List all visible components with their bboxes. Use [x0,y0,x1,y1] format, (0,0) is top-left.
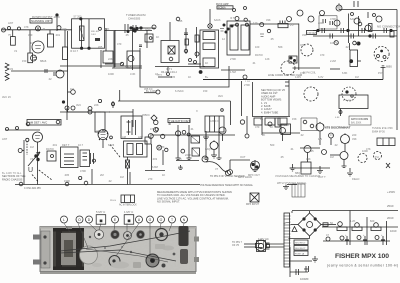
svg-text:L: L [63,218,65,222]
svg-text:500: 500 [270,143,275,147]
svg-text:6BA6: 6BA6 [40,59,47,63]
svg-text:MILLER 1461 A: MILLER 1461 A [161,71,178,74]
svg-text:AM DET / AVC: AM DET / AVC [29,121,47,125]
svg-text:IF T2: IF T2 [230,16,237,20]
svg-text:.01: .01 [252,61,256,65]
svg-text:22K: 22K [108,57,113,61]
svg-text:AVC: AVC [76,103,81,107]
svg-text:.003: .003 [152,157,158,161]
svg-text:V1: V1 [14,49,18,53]
svg-text:RADIO CHASSIS: RADIO CHASSIS [2,177,23,181]
svg-text:1K: 1K [205,61,208,65]
svg-text:56 PH COIL: 56 PH COIL [303,72,317,75]
svg-text:.02: .02 [183,49,187,53]
svg-text:.05: .05 [125,33,129,37]
svg-text:1.2K: 1.2K [350,219,356,223]
svg-text:■: ■ [127,219,130,225]
svg-text:O: O [78,218,81,222]
svg-text:RATIO DISCRIM: RATIO DISCRIM [351,118,368,121]
svg-text:V4: V4 [96,129,100,133]
svg-text:6BE6: 6BE6 [386,66,393,69]
svg-text:33K: 33K [266,18,271,22]
svg-text:SCANNING UNIT: SCANNING UNIT [31,20,51,23]
svg-text:FIELD: FIELD [352,177,359,181]
svg-text:V6: V6 [355,41,359,45]
svg-text:+150V: +150V [387,190,395,194]
svg-text:120: 120 [253,21,258,25]
svg-text:.005: .005 [170,75,176,79]
svg-text:POT: POT [378,71,384,75]
svg-text:1M: 1M [120,175,124,179]
svg-text:455: 455 [178,19,183,23]
svg-text:15K: 15K [292,117,297,121]
svg-text:56K: 56K [278,45,283,49]
svg-text:470: 470 [255,125,260,129]
svg-text:.01: .01 [290,147,294,151]
svg-text:6.8M: 6.8M [152,165,158,169]
svg-text:1M: 1M [330,155,334,159]
svg-text:.05: .05 [310,149,314,153]
svg-text:6CB6A: 6CB6A [218,7,226,10]
svg-text:100MF: 100MF [300,277,309,281]
svg-text:5 MY C: 5 MY C [96,210,105,214]
svg-text:33K: 33K [178,165,183,169]
svg-text:6.8K: 6.8K [342,71,348,75]
svg-text:1K: 1K [162,173,165,177]
svg-text:EM84 6FG6: EM84 6FG6 [372,130,386,133]
svg-text:150K: 150K [64,179,70,183]
svg-text:.02: .02 [334,143,338,147]
svg-text:455KC: 455KC [142,113,150,117]
svg-text:PH: PH [375,155,379,159]
svg-text:OSC: OSC [145,27,151,31]
svg-text:NO CONNECTION: NO CONNECTION [377,25,400,29]
svg-text:IF 10.7: IF 10.7 [70,49,79,53]
svg-text:820: 820 [370,219,375,223]
svg-text:.001: .001 [55,33,61,37]
svg-text:6AU6: 6AU6 [214,18,221,22]
svg-text:ANT: ANT [138,135,144,139]
svg-text:220K: 220K [318,21,324,25]
svg-text:20UF: 20UF [387,216,394,220]
svg-text:47K: 47K [300,71,305,75]
svg-text:FISHER MPX 100: FISHER MPX 100 [335,253,389,260]
svg-text:MPX INPUT: MPX INPUT [246,203,260,206]
svg-text:270K: 270K [244,83,250,87]
svg-text:270K: 270K [230,57,236,61]
svg-text:V3: V3 [30,157,34,161]
svg-text:33K: 33K [306,157,311,161]
svg-text:6AL5: 6AL5 [350,17,357,21]
svg-text:6T8 DISCRIMINAT: 6T8 DISCRIMINAT [325,126,351,130]
svg-text:470K: 470K [80,169,86,173]
svg-text:57 200: 57 200 [74,15,82,19]
svg-text:1 MY C: 1 MY C [124,210,133,214]
svg-text:150: 150 [203,89,208,93]
svg-text:2.2M: 2.2M [330,59,336,63]
svg-text:3.3K: 3.3K [130,72,136,76]
svg-text:2K: 2K [262,133,265,137]
svg-text:TO PIN 3 OF V5 OSC SECTION: TO PIN 3 OF V5 OSC SECTION [210,175,245,178]
svg-text:ANT: ANT [8,21,14,25]
svg-text:FM DET: FM DET [308,32,317,35]
svg-text:150: 150 [22,59,27,63]
svg-text:G: G [149,218,152,222]
svg-text:68K: 68K [160,145,165,149]
svg-text:.02: .02 [48,77,52,81]
svg-text:A B C D: A B C D [210,119,219,123]
svg-text:1K: 1K [156,35,159,39]
svg-text:B+ 140V: B+ 140V [146,89,156,93]
svg-text:.01: .01 [42,27,46,31]
svg-text:X: X [196,109,198,113]
svg-text:6AQ5: 6AQ5 [205,147,212,151]
svg-text:1M: 1M [70,87,74,91]
svg-text:6AV6: 6AV6 [108,143,115,147]
svg-text:455: 455 [98,45,103,49]
svg-text:2.2K: 2.2K [284,123,290,127]
svg-text:RATIO: RATIO [255,53,263,57]
svg-text:PLUG: PLUG [110,200,116,202]
svg-text:33K: 33K [302,33,307,37]
svg-text:1M: 1M [30,145,34,149]
svg-text:B+: B+ [205,75,209,79]
svg-text:O: O [160,218,163,222]
svg-text:AC INTERLOCK: AC INTERLOCK [119,204,137,207]
svg-text:.05: .05 [280,155,284,159]
svg-text:1K: 1K [188,75,191,79]
svg-text:100K: 100K [108,72,114,76]
svg-text:V7: V7 [215,167,219,171]
svg-text:FM MPX OUTPUT JACK: FM MPX OUTPUT JACK [32,16,60,19]
svg-text:IF T1: IF T1 [166,67,173,71]
svg-text:10UF: 10UF [390,229,397,233]
svg-text:22K: 22K [94,103,99,107]
svg-text:100: 100 [255,45,260,49]
svg-text:25UF: 25UF [387,204,394,208]
svg-text:C OSC ADJ 455: C OSC ADJ 455 [24,187,41,190]
svg-text:EYE 6E5: EYE 6E5 [343,100,353,102]
svg-text:SEL RECT: SEL RECT [295,248,306,250]
svg-text:AVC 2V: AVC 2V [2,95,11,99]
svg-text:470K: 470K [330,17,336,21]
svg-text:RATIO: RATIO [46,147,54,151]
svg-text:10.7: 10.7 [78,143,84,147]
svg-text:220: 220 [352,133,357,137]
svg-text:6.8K: 6.8K [335,117,340,119]
svg-text:VOLTAGE READINGS TAKEN WITH NO: VOLTAGE READINGS TAKEN WITH NO SIGNAL [200,184,254,187]
svg-text:1.5M: 1.5M [230,70,236,74]
svg-text:AM: AM [122,135,126,139]
svg-text:WITH VTVM NO SIGNAL: WITH VTVM NO SIGNAL [277,181,307,185]
svg-text:47K: 47K [366,147,371,151]
svg-text:NO SIGNAL INPUT.: NO SIGNAL INPUT. [157,200,180,204]
svg-text:6BE6: 6BE6 [125,65,132,69]
svg-text:470: 470 [117,42,122,46]
svg-text:.05: .05 [178,157,182,161]
svg-text:DET T: DET T [62,143,70,147]
svg-text:.001: .001 [52,143,58,147]
svg-text:BAL 500K: BAL 500K [351,122,362,125]
svg-text:12K: 12K [265,57,270,61]
svg-text:6.3V: 6.3V [318,75,324,79]
svg-text:OSC: OSC [300,43,306,47]
svg-text:.02: .02 [300,133,304,137]
svg-text:U: U [28,167,33,174]
svg-text:1W: 1W [318,137,322,141]
svg-text:CHASSIS: CHASSIS [128,17,140,21]
svg-text:MILLER: MILLER [91,31,99,33]
svg-text:.05: .05 [270,37,274,41]
svg-text:.02: .02 [345,45,349,49]
svg-text:1 1/4: 1 1/4 [245,81,251,83]
svg-text:6.3VAC: 6.3VAC [175,89,184,93]
svg-text:ANT: ANT [2,137,8,141]
svg-text:OF V5: OF V5 [232,244,240,247]
svg-text:33K: 33K [352,137,357,141]
svg-text:220K: 220K [185,153,191,157]
svg-text:117V AC: 117V AC [258,237,269,241]
svg-text:10K: 10K [330,41,335,45]
svg-text:SEL RECT: SEL RECT [295,243,306,245]
svg-text:.005: .005 [64,173,70,177]
svg-text:6BQ5: 6BQ5 [295,171,302,175]
svg-text:.02: .02 [108,179,112,183]
svg-text:OUT: OUT [240,155,246,159]
svg-text:300: 300 [28,33,33,37]
svg-text:47K: 47K [150,127,155,131]
svg-text:THE RATIO DET: THE RATIO DET [169,119,190,123]
svg-text:AVC: AVC [218,94,223,98]
svg-text:1M: 1M [30,41,34,45]
svg-text:1K: 1K [270,125,273,129]
svg-text:T: T [171,218,173,222]
svg-text:MPX OUT: MPX OUT [248,173,260,177]
svg-text:2.2: 2.2 [290,23,294,27]
svg-text:■: ■ [99,219,102,225]
svg-text:1M: 1M [355,75,359,79]
svg-text:.01: .01 [190,127,194,131]
svg-text:4. EM84 TUBE: 4. EM84 TUBE [261,110,279,114]
svg-text:1461: 1461 [91,34,97,36]
svg-text:270: 270 [148,177,153,181]
svg-text:140V: 140V [295,75,301,79]
svg-text:47K: 47K [24,25,29,29]
svg-text:220: 220 [62,27,67,31]
svg-text:470: 470 [320,53,325,57]
svg-text:FUSE 1A: FUSE 1A [295,253,305,256]
svg-text:2M: 2M [100,173,104,177]
svg-text:OUT T: OUT T [318,175,326,179]
svg-text:2.2K: 2.2K [104,27,110,31]
svg-text:(early version & serial number: (early version & serial number 100-H) [327,264,398,268]
